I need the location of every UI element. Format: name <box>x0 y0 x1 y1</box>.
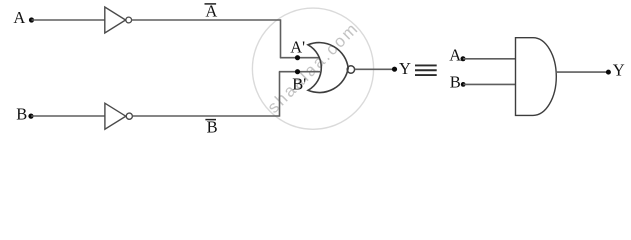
wire B into AND gate <box>463 83 515 85</box>
NOR gate U3 body <box>308 43 348 93</box>
NOT gate U2 triangle <box>105 103 126 129</box>
node Y dot (left circuit) <box>392 67 397 72</box>
node Y dot (right circuit) <box>606 70 611 75</box>
svg-text:A': A' <box>290 37 305 56</box>
wire B' horizontal into NOR <box>279 71 320 73</box>
node A terminal dot <box>29 17 34 22</box>
svg-text:B: B <box>16 105 27 124</box>
node B dot (AND input) <box>461 82 466 87</box>
wire vertical A drop <box>280 19 282 57</box>
svg-text:A: A <box>13 8 25 27</box>
svg-text:Y: Y <box>399 59 411 78</box>
svg-text:Y: Y <box>613 61 625 80</box>
node A' dot <box>295 55 300 60</box>
wire Bbar from U2 to corner <box>133 115 280 117</box>
wire A' horizontal into NOR <box>280 57 320 59</box>
wire Abar from U1 to corner <box>132 19 281 21</box>
node A dot (AND input) <box>461 56 466 61</box>
svg-text:A: A <box>449 45 461 64</box>
NOT gate U1 triangle <box>105 7 126 33</box>
wire A to NOT gate U1 <box>32 19 106 21</box>
NOT gate U1 bubble <box>126 17 132 23</box>
equivalence symbol bar 2 <box>415 69 437 71</box>
equivalence symbol bar 3 <box>415 74 437 76</box>
AND gate U4 body <box>516 38 557 116</box>
svg-text:A: A <box>205 1 217 20</box>
equivalence symbol bar 1 <box>415 64 437 66</box>
wire A into AND gate <box>463 58 516 60</box>
svg-text:B': B' <box>292 75 306 94</box>
svg-text:B: B <box>450 73 461 92</box>
NOR gate U3 bubble <box>347 66 354 73</box>
label Abar overline <box>205 3 217 5</box>
wire AND output to node Y <box>556 71 608 73</box>
watermark circle <box>252 8 373 129</box>
wire B to NOT gate U2 <box>31 115 105 117</box>
wire NOR output to node Y <box>355 68 395 70</box>
label Bbar overline <box>205 119 216 121</box>
node B terminal dot <box>28 114 33 119</box>
NOT gate U2 bubble <box>126 113 132 119</box>
wire vertical B rise <box>279 72 281 117</box>
svg-text:B: B <box>207 118 218 137</box>
node B' dot <box>295 69 300 74</box>
